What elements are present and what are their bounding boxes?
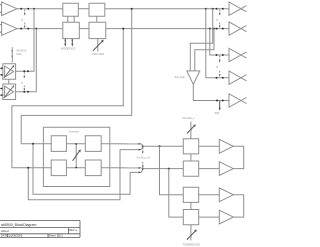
svg-text:R: R: [215, 66, 219, 68]
op-amp A9: [219, 210, 233, 224]
wire mux2 to DAC box2: [143, 168, 184, 170]
op-amp A6: [219, 139, 233, 153]
node amp1 out junction dots: [20, 8, 35, 10]
op-amp A7: [219, 162, 233, 176]
wire serpentine from D line down-left to block row2: [12, 29, 123, 168]
node mux1: [142, 145, 144, 147]
mux box A: [63, 3, 79, 16]
block box TL: [51, 136, 66, 152]
svg-text:REV a: REV a: [69, 228, 77, 232]
DAC box 3: [183, 187, 198, 202]
node tap to box4: [168, 168, 170, 170]
wire block row1 output to mux node: [110, 143, 140, 145]
svg-text:ab5500_BlockDiagram: ab5500_BlockDiagram: [1, 223, 36, 227]
wire sum input 1: [190, 9, 212, 71]
svg-text:Sheet: Sheet: [49, 234, 56, 238]
wire bus from mic PGA2 up to line R: [16, 29, 37, 92]
wire amp2 output to mux C: [17, 28, 63, 30]
wire block row1: [43, 143, 109, 145]
node speaker wire dots: [216, 100, 224, 102]
wire B output line L to right: [105, 8, 229, 10]
mic PGA1 gain arrow: [4, 67, 13, 78]
wire box3 to out amp: [199, 194, 220, 196]
op-amp T1 line out L: [229, 2, 241, 15]
svg-text:DATE: DATE: [1, 234, 8, 238]
mux box B: [89, 3, 105, 16]
wire box1 to out amp: [199, 145, 220, 147]
wire box1-box2 connector: [190, 154, 192, 161]
svg-text:9600: 9600: [16, 53, 22, 56]
svg-text:Interface: Interface: [69, 130, 80, 134]
trimmer above DAC box1: [182, 117, 195, 139]
wire A to C connectors: [68, 16, 74, 22]
svg-text:R: R: [20, 19, 24, 21]
node bypass upper junction: [32, 143, 34, 145]
node line R dots at right: [209, 28, 224, 30]
op-amp U3 summing amp: [187, 71, 200, 84]
op-amp U1: [2, 2, 17, 16]
svg-text:R: R: [215, 19, 219, 21]
node tap to box3: [159, 145, 161, 147]
arrowheads into mux node 1: [139, 143, 142, 151]
switch S2 between mic outputs: [20, 72, 25, 91]
wire C to D: [79, 28, 89, 30]
block box BL: [51, 160, 66, 176]
trimmer inside block: [73, 143, 81, 168]
title block: [0, 221, 80, 238]
block interface outer box: [43, 127, 109, 186]
DAC box 1: [183, 139, 198, 154]
svg-text:10/08/2006: 10/08/2006: [9, 234, 23, 238]
svg-text:R: R: [20, 82, 24, 84]
mic PGA2 box: [3, 84, 16, 100]
wire block row2: [43, 167, 109, 169]
op-amp T5 speaker out: [229, 94, 241, 107]
wire D output line R to right: [106, 28, 229, 30]
trimmer gain below box D: [92, 39, 104, 56]
wire B to D connector: [96, 16, 98, 22]
switch S4 between HP lines: [215, 56, 220, 77]
svg-text:Sum amp: Sum amp: [175, 76, 186, 79]
wire bus from mic PGA1 up to line L: [16, 9, 34, 72]
switch S3 between line L and R at right: [215, 9, 220, 27]
block box BR: [85, 160, 101, 176]
switch S1 between L and R input lines: [20, 9, 25, 28]
svg-text:POWERSCALE: POWERSCALE: [183, 243, 200, 246]
node amp2 out junction dots: [20, 28, 37, 30]
op-amp T3 HP L: [229, 48, 241, 61]
op-amp U1 input stubs: [0, 5, 2, 13]
wire BTL bridge amps 6-7: [233, 146, 243, 168]
op-amp U2: [2, 22, 17, 36]
wire sum input 2: [195, 29, 214, 71]
op-amp T2 line out R: [229, 22, 241, 35]
wire bypass lower from row2 wire under block to mux L input: [28, 150, 140, 200]
mic PGA1 input stubs: [0, 67, 3, 75]
wire box2 to out amp: [199, 168, 220, 170]
arrow AGC below box C: [70, 39, 75, 50]
arrowheads into mux node 2: [139, 167, 142, 174]
svg-text:1/1: 1/1: [59, 234, 63, 238]
wire BTL bridge amps 8-9: [233, 195, 243, 217]
node bypass lower junction: [27, 167, 29, 169]
op-amp T4 HP R: [229, 71, 241, 84]
node HP wire dots: [216, 54, 224, 79]
mic PGA2 gain arrow: [4, 87, 13, 98]
wire A to B: [78, 8, 89, 10]
svg-text:ADC GAIN: ADC GAIN: [92, 53, 104, 56]
wire block row2 output to mux node: [110, 167, 140, 169]
wire mux1 to DAC box1: [143, 145, 184, 147]
wire sum output to speaker amp: [193, 84, 229, 100]
DAC box 4: [183, 210, 198, 225]
op-amp U2 input stubs: [0, 25, 2, 32]
op-amp A8: [219, 188, 233, 202]
ADC box C: [63, 22, 80, 38]
node line L dots at right: [205, 8, 224, 10]
MICBIAS arrow: [11, 47, 26, 62]
wire tap down to DAC box3: [160, 146, 184, 195]
arrow speaker pin: [215, 101, 221, 116]
wire drop to HP L: [210, 29, 229, 55]
wire serpentine from B line down-left to block row1: [21, 9, 132, 144]
label title row3: [1, 234, 63, 238]
svg-text:About: About: [1, 229, 9, 233]
wire tap down to DAC box4: [169, 169, 184, 218]
wire box3-box4 connector: [190, 202, 192, 209]
svg-text:AGC: AGC: [70, 47, 75, 50]
ADC box D: [89, 22, 106, 38]
wire box4 to out amp: [199, 216, 220, 218]
wire slants into mux nodes: [142, 144, 143, 173]
arrow MICDET below box C: [61, 39, 71, 50]
node serp D junction: [122, 28, 124, 30]
mic PGA2 input stubs: [0, 88, 3, 96]
trimmer below DAC box4: [183, 225, 200, 247]
switch S5 between mux nodes: [136, 148, 150, 168]
node mux2: [142, 168, 144, 170]
wire amp1 output to mux A: [17, 8, 63, 10]
DAC box 2: [183, 161, 198, 176]
svg-text:Out Mux_LR: Out Mux_LR: [136, 156, 150, 159]
node mic1 out dots: [23, 70, 29, 72]
wire bypass upper from row1 wire under block to mux R input: [33, 144, 140, 195]
node serp B junction: [131, 8, 133, 10]
mic PGA2 amp triangle: [5, 86, 14, 97]
svg-text:SPK: SPK: [215, 112, 220, 115]
block box TR: [85, 136, 101, 152]
node mic2 out dots: [23, 91, 29, 93]
wire drop to HP R: [206, 9, 229, 78]
mic PGA1 amp triangle: [5, 66, 14, 77]
svg-text:Vol scale_L: Vol scale_L: [182, 117, 195, 120]
mic PGA1 box: [3, 64, 16, 80]
